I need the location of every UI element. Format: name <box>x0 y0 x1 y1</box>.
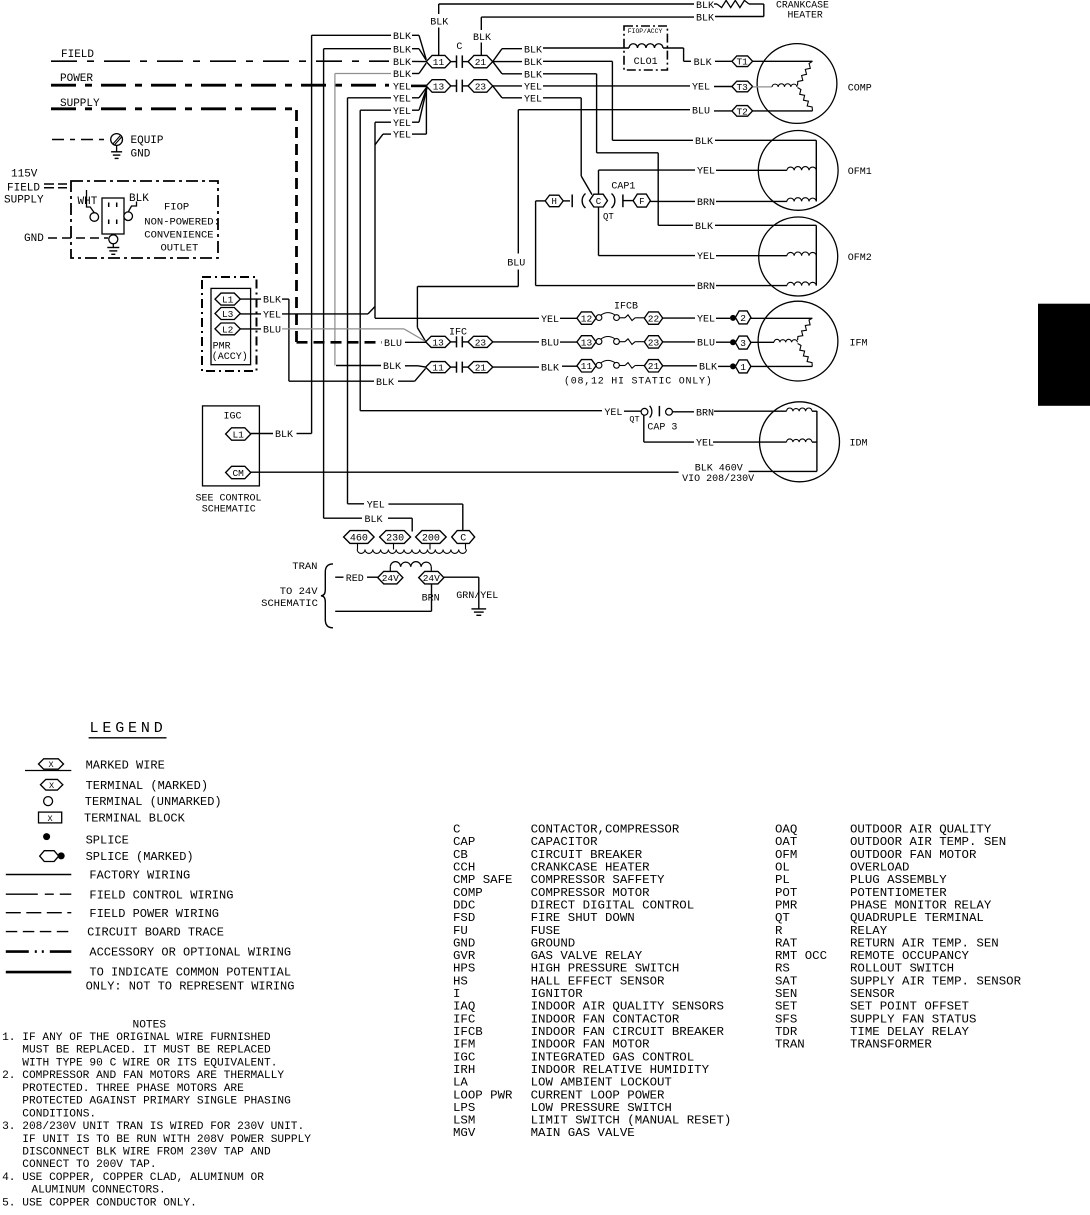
wire BLU vertical from T2 row <box>517 110 519 254</box>
svg-text:ALUMINUM CONNECTORS.: ALUMINUM CONNECTORS. <box>31 1185 165 1197</box>
svg-text:BLK: BLK <box>263 296 281 307</box>
terminal 23 IFCB <box>644 336 662 348</box>
svg-text:13: 13 <box>433 81 445 92</box>
terminal CM IGC <box>226 466 251 478</box>
wire BLK lower row from PMR L1 bus <box>289 380 374 382</box>
motor COMP circle <box>757 44 837 124</box>
legend terminal unmarked symbol <box>44 797 53 806</box>
integrated gas control IGC box <box>203 406 260 486</box>
wire YEL vertical bus x347.5 to TRAN C tap <box>347 98 349 504</box>
legend field control wiring line <box>6 893 72 895</box>
phase monitor relay PMR ACCY dash-dot box <box>202 277 257 371</box>
svg-text:1: 1 <box>740 362 746 373</box>
svg-text:(08,12 HI STATIC ONLY): (08,12 HI STATIC ONLY) <box>564 375 713 387</box>
abbreviation table left column <box>453 823 731 1141</box>
svg-text:PROTECTED. THREE PHASE MOTORS: PROTECTED. THREE PHASE MOTORS ARE <box>22 1083 244 1095</box>
wire YEL IFM row from bus <box>375 317 539 319</box>
svg-text:IFCB: IFCB <box>614 301 638 312</box>
wire OFM1 internal vertical <box>815 140 817 201</box>
contactor IFC terminal 11 <box>426 362 451 373</box>
svg-text:GRN/YEL: GRN/YEL <box>456 590 498 602</box>
svg-text:11: 11 <box>581 361 593 372</box>
contactor IFC terminal 21 <box>468 362 493 373</box>
svg-text:SCHEMATIC: SCHEMATIC <box>202 505 256 516</box>
svg-text:CONDITIONS.: CONDITIONS. <box>22 1108 96 1120</box>
svg-text:YEL: YEL <box>604 408 622 419</box>
svg-text:YEL: YEL <box>697 315 715 326</box>
legend factory wiring line <box>6 874 72 876</box>
terminal circle cap3 right <box>666 408 673 415</box>
svg-text:5. USE COPPER CONDUCTOR ONLY.: 5. USE COPPER CONDUCTOR ONLY. <box>2 1197 197 1209</box>
legend terminal block symbol <box>39 812 62 823</box>
resistor crankcase heater CCH <box>717 0 749 7</box>
svg-text:BRN: BRN <box>697 282 715 293</box>
svg-text:BLK: BLK <box>376 378 394 389</box>
wire BLK vertical bus x323.6 to TRAN 230 tap <box>323 49 325 519</box>
wire BLK lead outlet <box>128 202 136 212</box>
wire C bottom to OFM2 YEL <box>598 207 600 256</box>
svg-text:WHT: WHT <box>78 196 98 208</box>
wire GND dashed lead <box>48 237 108 239</box>
svg-text:YEL: YEL <box>697 167 715 178</box>
svg-text:13: 13 <box>581 337 593 348</box>
svg-text:23: 23 <box>475 81 487 92</box>
svg-text:3. 208/230V UNIT TRAN IS WIRED: 3. 208/230V UNIT TRAN IS WIRED FOR 230V … <box>2 1121 304 1133</box>
wire YEL drop from QT <box>643 415 645 442</box>
svg-text:CONNECT TO 200V TAP.: CONNECT TO 200V TAP. <box>22 1159 156 1171</box>
svg-text:BRN: BRN <box>422 594 440 605</box>
svg-text:QT: QT <box>603 212 614 222</box>
winding IFM top arm <box>798 318 813 340</box>
contactor C contact gap row2 <box>451 85 457 87</box>
winding COMP top arm <box>798 61 813 85</box>
svg-text:YEL: YEL <box>541 315 559 326</box>
svg-text:PROTECTED AGAINST PRIMARY SING: PROTECTED AGAINST PRIMARY SINGLE PHASING <box>22 1096 291 1108</box>
capacitor CAP1 right <box>612 194 615 209</box>
svg-text:WITH TYPE 90 C WIRE OR ITS EQU: WITH TYPE 90 C WIRE OR ITS EQUIVALENT. <box>22 1058 277 1070</box>
splice dot IFM 2 <box>730 315 736 321</box>
terminal 22 IFCB <box>644 312 662 324</box>
splice dot IFM 1 <box>730 363 736 369</box>
svg-text:C: C <box>460 534 466 545</box>
svg-text:H: H <box>551 197 556 207</box>
svg-text:SCHEMATIC: SCHEMATIC <box>261 598 318 610</box>
capacitor CAP1 left <box>563 200 570 202</box>
legend circuit board trace line <box>6 931 72 933</box>
legend splice symbol <box>43 833 50 840</box>
svg-text:L1: L1 <box>222 295 234 306</box>
svg-text:YEL: YEL <box>696 439 714 450</box>
legend terminal marked symbol <box>41 779 63 790</box>
svg-text:200: 200 <box>422 534 440 545</box>
circuit breaker IFCB pole1 <box>596 315 602 321</box>
brace to 24v schematic <box>321 564 333 628</box>
wire field supply stub dashes <box>44 183 67 185</box>
wire 24V right to ground <box>444 576 479 578</box>
wire BLK OFM1 row <box>612 139 693 141</box>
svg-text:FIOP: FIOP <box>164 202 189 214</box>
FIOP non-powered convenience outlet box <box>71 181 218 258</box>
equipment ground symbol EQUIP GND <box>52 139 110 141</box>
splice dot IFM 3 <box>730 339 736 345</box>
svg-text:L3: L3 <box>222 309 234 320</box>
wire CM row to IDM <box>251 471 679 473</box>
wire BLK to IFM 1 <box>663 365 697 367</box>
svg-text:BLK: BLK <box>383 362 401 373</box>
wire BLK row through CLO1 coil <box>543 47 629 49</box>
wire YEL vertical bus x360.2 to IDM QT <box>359 110 361 411</box>
wire field-power heavy dashed row y85 <box>51 84 389 87</box>
svg-text:YEL: YEL <box>393 119 411 130</box>
winding IDM top <box>787 408 813 411</box>
wire BLU row to IFCB 13 <box>493 341 539 343</box>
terminal L2 PMR <box>215 323 240 335</box>
svg-text:IGC: IGC <box>224 412 242 423</box>
svg-text:BLU: BLU <box>692 106 710 117</box>
motor IFM circle <box>758 301 838 381</box>
svg-text:BLK: BLK <box>393 45 411 56</box>
svg-text:SEE CONTROL: SEE CONTROL <box>196 494 262 505</box>
terminal circle bottom outlet ground <box>109 235 118 244</box>
wire YEL to TRAN C tap <box>348 503 365 505</box>
terminal L3 PMR <box>215 308 240 320</box>
terminal C of QT <box>590 194 608 207</box>
svg-text:BRN: BRN <box>697 198 715 209</box>
relay coil CLO1 FIOP/ACCY box <box>624 26 667 70</box>
svg-text:MAIN GAS VALVE: MAIN GAS VALVE <box>531 1126 635 1140</box>
wire RED lead <box>335 576 343 578</box>
terminal 460 TRAN <box>344 531 375 544</box>
svg-text:IFC: IFC <box>449 328 467 339</box>
winding IFM bottom arm <box>798 344 813 367</box>
svg-text:T2: T2 <box>736 106 748 117</box>
svg-text:CAP1: CAP1 <box>611 182 635 193</box>
svg-text:21: 21 <box>475 57 487 68</box>
wire BLU horizontal jog <box>417 286 518 288</box>
svg-text:TERMINAL (MARKED): TERMINAL (MARKED) <box>86 779 208 793</box>
svg-text:GND: GND <box>131 149 151 161</box>
coil CLO1 <box>629 44 663 48</box>
wire YEL row 98 to CAP1 C <box>493 86 502 98</box>
wire BLU to IFM 3 <box>663 341 695 343</box>
contactor IFC contact gap row1 <box>451 341 457 343</box>
wire BRN bottom rail <box>431 584 433 611</box>
terminal 12 IFCB <box>577 312 596 324</box>
svg-text:23: 23 <box>475 337 487 348</box>
svg-text:C: C <box>596 197 602 207</box>
svg-text:BLK: BLK <box>275 430 293 441</box>
terminal L1 PMR <box>215 293 240 305</box>
svg-text:(ACCY): (ACCY) <box>212 351 248 363</box>
svg-text:3: 3 <box>740 338 746 349</box>
contactor IFC contact gap row2 <box>451 366 457 368</box>
svg-text:DISCONNECT BLK WIRE FROM 230V: DISCONNECT BLK WIRE FROM 230V TAP AND <box>22 1147 271 1159</box>
wire F to OFM1 BRN <box>651 200 696 202</box>
wire BLK to TRAN 230 tap <box>324 517 362 519</box>
transformer TRAN primary taps <box>357 543 359 549</box>
contactor C terminal 23 <box>468 80 493 93</box>
svg-text:BLK: BLK <box>524 70 542 81</box>
svg-text:TERMINAL BLOCK: TERMINAL BLOCK <box>84 812 186 826</box>
svg-text:BLK: BLK <box>473 33 491 44</box>
contactor IFC terminal 13 <box>426 336 451 347</box>
svg-text:SUPPLY: SUPPLY <box>4 195 44 207</box>
wire C top to OFM1 YEL <box>598 170 600 194</box>
winding COMP center <box>753 86 772 88</box>
svg-text:BLK: BLK <box>524 58 542 69</box>
svg-text:FIELD: FIELD <box>61 49 94 61</box>
wire YEL vertical bus x375 to IFM YEL row <box>374 122 376 318</box>
wire BLK fan row 48 from terminal 21 <box>493 49 502 62</box>
svg-text:FIELD CONTROL WIRING: FIELD CONTROL WIRING <box>89 888 233 902</box>
wire BLK vertical above terminal 11 <box>438 4 440 14</box>
svg-text:BLK: BLK <box>696 1 714 12</box>
svg-text:IDM: IDM <box>850 439 868 450</box>
wire BLK row 74 to OFM2 <box>493 62 502 74</box>
terminal 24V left <box>378 571 403 584</box>
wire BLU dashed from supply vertical <box>297 341 383 344</box>
legend common potential line <box>6 971 72 974</box>
svg-text:BLU: BLU <box>697 339 715 350</box>
svg-text:BLK: BLK <box>365 515 383 526</box>
svg-text:BLK: BLK <box>393 58 411 69</box>
wire IDM internal vertical <box>816 411 818 472</box>
winding OFM1 bottom <box>787 198 816 202</box>
wire YEL row 86 to COMP T3 <box>493 85 522 87</box>
svg-text:YEL: YEL <box>692 83 710 94</box>
svg-text:FIOP/ACCY: FIOP/ACCY <box>628 28 663 35</box>
svg-text:TRAN: TRAN <box>292 561 317 573</box>
svg-text:EQUIP: EQUIP <box>131 135 164 147</box>
terminal 13 IFCB <box>577 336 596 348</box>
svg-text:YEL: YEL <box>393 131 411 142</box>
terminal L1 IGC <box>226 428 251 440</box>
wire BRN to IDM <box>672 411 694 413</box>
svg-text:1. IF ANY OF THE ORIGINAL WIRE: 1. IF ANY OF THE ORIGINAL WIRE FURNISHED <box>2 1032 271 1044</box>
wire OFM2 internal vertical <box>815 225 817 285</box>
terminal circle right outlet <box>124 212 133 221</box>
svg-text:OFM2: OFM2 <box>848 253 872 264</box>
terminal 230 TRAN <box>380 531 411 544</box>
svg-text:NOTES: NOTES <box>133 1019 167 1031</box>
svg-text:YEL: YEL <box>524 94 542 105</box>
svg-text:TERMINAL (UNMARKED): TERMINAL (UNMARKED) <box>85 795 222 809</box>
legend splice marked symbol <box>40 851 59 862</box>
svg-text:BLK: BLK <box>699 362 717 373</box>
winding OFM1 top <box>787 167 816 171</box>
contactor IFC terminal 23 <box>468 336 493 347</box>
svg-text:OFM1: OFM1 <box>848 167 872 178</box>
svg-text:MUST BE REPLACED. IT MUST BE R: MUST BE REPLACED. IT MUST BE REPLACED <box>22 1045 271 1057</box>
terminal C TRAN <box>452 531 475 544</box>
svg-text:C: C <box>456 42 462 53</box>
svg-text:CAP 3: CAP 3 <box>647 422 677 433</box>
terminal 1 IFM <box>735 360 751 373</box>
abbreviation table right column <box>775 823 1022 1052</box>
svg-text:X: X <box>48 760 53 770</box>
svg-text:BLK: BLK <box>393 32 411 43</box>
svg-text:115V: 115V <box>11 169 38 181</box>
svg-text:ACCESSORY OR OPTIONAL WIRING: ACCESSORY OR OPTIONAL WIRING <box>89 945 291 959</box>
wire heavy dashed vertical x296.5 supply to IFC blu <box>295 110 298 342</box>
svg-text:L2: L2 <box>222 324 234 335</box>
ground symbol TRAN <box>471 608 486 610</box>
svg-text:11: 11 <box>433 57 445 68</box>
contactor C terminal 11 <box>426 55 451 67</box>
circuit breaker IFCB pole3 <box>596 362 602 368</box>
wire BLK OFM2 row <box>658 224 693 226</box>
terminal circle left outlet <box>90 213 99 222</box>
transformer TRAN secondary coil <box>390 562 431 567</box>
svg-text:CLO1: CLO1 <box>634 57 658 68</box>
contactor C terminal 21 <box>468 55 493 67</box>
wire BLU vertical to IFC <box>416 287 418 328</box>
svg-text:HEATER: HEATER <box>788 10 823 21</box>
legend field power wiring line <box>6 912 72 914</box>
terminal 2 IFM <box>735 311 751 324</box>
svg-text:BLK: BLK <box>393 70 411 81</box>
svg-text:QT: QT <box>629 415 639 425</box>
svg-text:BLU: BLU <box>541 339 559 350</box>
svg-text:PMR: PMR <box>213 342 231 353</box>
svg-text:21: 21 <box>648 361 660 372</box>
svg-text:LEGEND: LEGEND <box>90 720 167 737</box>
ground symbol outlet <box>107 247 119 249</box>
wire BLK vertical bus x334.9 to IFC 11 <box>334 74 336 366</box>
terminal F <box>633 194 650 207</box>
wire BLK vertical bus x311.6 to IGC L1 <box>311 35 313 433</box>
contactor C contact gap row1 <box>451 61 457 63</box>
wire WHT lead <box>87 190 95 213</box>
svg-text:RED: RED <box>346 574 364 585</box>
wire BLK to T1 <box>715 60 732 62</box>
svg-text:4. USE COPPER, COPPER CLAD, AL: 4. USE COPPER, COPPER CLAD, ALUMINUM OR <box>2 1172 264 1184</box>
svg-text:BLK: BLK <box>129 193 149 205</box>
svg-text:21: 21 <box>475 363 487 374</box>
svg-text:TO 24V: TO 24V <box>280 586 319 598</box>
svg-text:2: 2 <box>740 313 746 324</box>
wire BLK vertical above terminal 21 <box>480 17 482 30</box>
wire supply heavy dashed row y109 <box>51 107 294 110</box>
wire YEL row5 y134 <box>375 134 383 145</box>
terminal 24V right <box>419 571 444 584</box>
svg-text:NON-POWERED:: NON-POWERED: <box>144 217 220 229</box>
terminal H <box>545 195 563 207</box>
terminal T3 <box>732 81 753 92</box>
wire BLK from PMR L1 <box>240 298 261 300</box>
wire BLK from IGC L1 <box>251 433 273 435</box>
svg-text:YEL: YEL <box>524 83 542 94</box>
svg-text:FIELD POWER WIRING: FIELD POWER WIRING <box>89 907 219 921</box>
svg-text:BLU: BLU <box>263 326 281 337</box>
terminal QT unmarked circle <box>641 408 648 415</box>
svg-text:SPLICE (MARKED): SPLICE (MARKED) <box>86 850 194 864</box>
wire field-control dashed row y61 to contactor 11 <box>51 60 389 62</box>
notes block <box>2 1019 311 1209</box>
svg-text:F: F <box>639 197 644 207</box>
page tab black rectangle <box>1038 304 1090 406</box>
outlet receptacle <box>102 198 124 234</box>
winding IDM bottom <box>787 439 813 442</box>
svg-text:BLK 460V: BLK 460V <box>695 463 743 474</box>
svg-text:IFM: IFM <box>850 339 868 350</box>
wire BLK row 61 to OFM1 <box>493 61 522 63</box>
svg-text:BLU: BLU <box>384 339 402 350</box>
svg-text:BLU: BLU <box>507 258 525 269</box>
winding OFM2 bottom <box>787 282 816 286</box>
svg-text:T1: T1 <box>736 57 748 68</box>
terminal 3 IFM <box>735 336 751 349</box>
svg-text:X: X <box>48 814 53 824</box>
wire BLK row from gray bus <box>336 365 381 367</box>
svg-text:13: 13 <box>432 337 444 348</box>
wire BLU row 110 to COMP T2 <box>518 109 690 111</box>
svg-text:24V: 24V <box>423 573 440 584</box>
svg-text:BLK: BLK <box>695 137 713 148</box>
winding IFM center <box>774 339 797 342</box>
terminal 11 IFCB <box>577 360 596 372</box>
svg-text:BLK: BLK <box>694 58 712 69</box>
winding OFM2 top <box>787 252 816 256</box>
svg-text:MGV: MGV <box>453 1126 476 1140</box>
wire BLU from PMR L2 <box>240 328 261 330</box>
svg-text:22: 22 <box>648 314 660 325</box>
svg-text:BLK: BLK <box>430 18 448 29</box>
svg-text:23: 23 <box>648 337 660 348</box>
motor OFM1 circle <box>758 131 838 211</box>
motor IDM circle <box>760 402 840 482</box>
wire BLK row1 y35 <box>312 34 391 36</box>
svg-text:OUTLET: OUTLET <box>161 243 199 255</box>
svg-text:460: 460 <box>350 534 368 545</box>
svg-text:230: 230 <box>386 534 404 545</box>
svg-text:BLK: BLK <box>696 14 714 25</box>
wire YEL row3 y110 <box>360 109 391 111</box>
svg-text:VIO 208/230V: VIO 208/230V <box>682 473 754 485</box>
svg-text:CIRCUIT BOARD TRACE: CIRCUIT BOARD TRACE <box>87 926 224 940</box>
terminal T1 <box>732 56 753 67</box>
terminal 200 TRAN <box>416 531 447 544</box>
wire YEL row to IDM QT <box>360 410 602 412</box>
motor OFM2 circle <box>759 217 838 296</box>
svg-text:BRN: BRN <box>696 408 714 419</box>
capacitor CAP 3 <box>650 406 652 418</box>
svg-text:TRANSFORMER: TRANSFORMER <box>850 1038 932 1052</box>
terminal 21 IFCB <box>644 360 662 372</box>
svg-text:CM: CM <box>232 468 244 479</box>
svg-text:12: 12 <box>581 314 593 325</box>
svg-text:FIELD: FIELD <box>7 183 40 195</box>
svg-text:YEL: YEL <box>263 311 281 322</box>
svg-text:2. COMPRESSOR AND FAN MOTORS A: 2. COMPRESSOR AND FAN MOTORS ARE THERMAL… <box>2 1070 284 1082</box>
svg-text:MARKED WIRE: MARKED WIRE <box>86 759 165 773</box>
svg-text:GND: GND <box>24 233 44 245</box>
wire BLK 460V row segment <box>749 470 817 472</box>
wire YEL row4 y122 <box>375 121 391 123</box>
svg-text:T3: T3 <box>736 82 748 93</box>
wire BLK row4 y73.5 <box>335 73 391 75</box>
svg-text:ONLY: NOT TO REPRESENT WIRING: ONLY: NOT TO REPRESENT WIRING <box>86 979 295 993</box>
wire YEL row2 y98 <box>348 97 392 99</box>
wire H to OFM2 BRN <box>536 200 546 202</box>
svg-text:TO INDICATE COMMON POTENTIAL: TO INDICATE COMMON POTENTIAL <box>89 966 291 980</box>
phase monitor relay PMR inner box <box>211 288 251 364</box>
wire YEL from PMR L3 <box>240 313 261 315</box>
wire BLK row to IFCB 11 <box>493 366 539 368</box>
svg-text:24V: 24V <box>382 573 399 584</box>
svg-text:X: X <box>49 781 54 791</box>
svg-text:YEL: YEL <box>393 83 411 94</box>
